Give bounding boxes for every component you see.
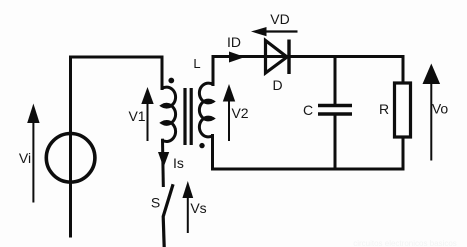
primary polarity dot bbox=[168, 78, 174, 84]
arrow V1 bbox=[141, 87, 153, 141]
arrow V2 bbox=[223, 84, 235, 141]
wire switch blade and bottom lead bbox=[163, 186, 172, 247]
svg-text:ID: ID bbox=[227, 34, 241, 50]
arrow Vs bbox=[182, 181, 193, 233]
wire primary bottom lead bbox=[161, 140, 165, 185]
transformer secondary winding L bbox=[199, 83, 213, 137]
capacitor C plates bbox=[318, 104, 352, 108]
diode D triangle bbox=[266, 41, 288, 74]
current arrow ID head bbox=[229, 52, 245, 63]
svg-text:S: S bbox=[151, 195, 160, 211]
svg-text:V2: V2 bbox=[231, 105, 248, 121]
arrow Vi bbox=[27, 104, 39, 203]
transformer core bars bbox=[183, 88, 186, 145]
svg-text:L: L bbox=[193, 56, 200, 71]
diode D cathode bar bbox=[287, 40, 290, 75]
svg-text:circuitos electronicos basicos: circuitos electronicos basicos bbox=[353, 239, 457, 247]
wire secondary bottom lead and bottom rail bbox=[213, 136, 404, 170]
wire cathode to resistor top bbox=[289, 57, 403, 83]
svg-text:Vs: Vs bbox=[190, 200, 206, 216]
svg-text:Vi: Vi bbox=[19, 150, 31, 166]
resistor R box bbox=[395, 83, 411, 137]
secondary polarity dot bbox=[199, 143, 204, 148]
svg-text:V1: V1 bbox=[128, 108, 145, 124]
svg-text:Is: Is bbox=[173, 155, 184, 171]
voltage source Vi circle bbox=[46, 134, 95, 183]
wire capacitor leads bbox=[334, 57, 337, 104]
arrow VD bbox=[251, 27, 298, 36]
wire resistor bottom lead bbox=[402, 137, 405, 169]
wire top-left loop: source to primary top bbox=[71, 57, 163, 236]
svg-text:Vo: Vo bbox=[432, 101, 449, 117]
svg-text:D: D bbox=[272, 77, 282, 93]
arrow Vo bbox=[423, 64, 441, 161]
wire secondary top lead and anode wire bbox=[213, 57, 288, 85]
svg-text:VD: VD bbox=[270, 11, 289, 27]
svg-text:R: R bbox=[379, 101, 389, 117]
svg-text:C: C bbox=[303, 102, 313, 118]
current arrow Is head bbox=[158, 152, 169, 168]
transformer primary winding bbox=[162, 87, 176, 141]
